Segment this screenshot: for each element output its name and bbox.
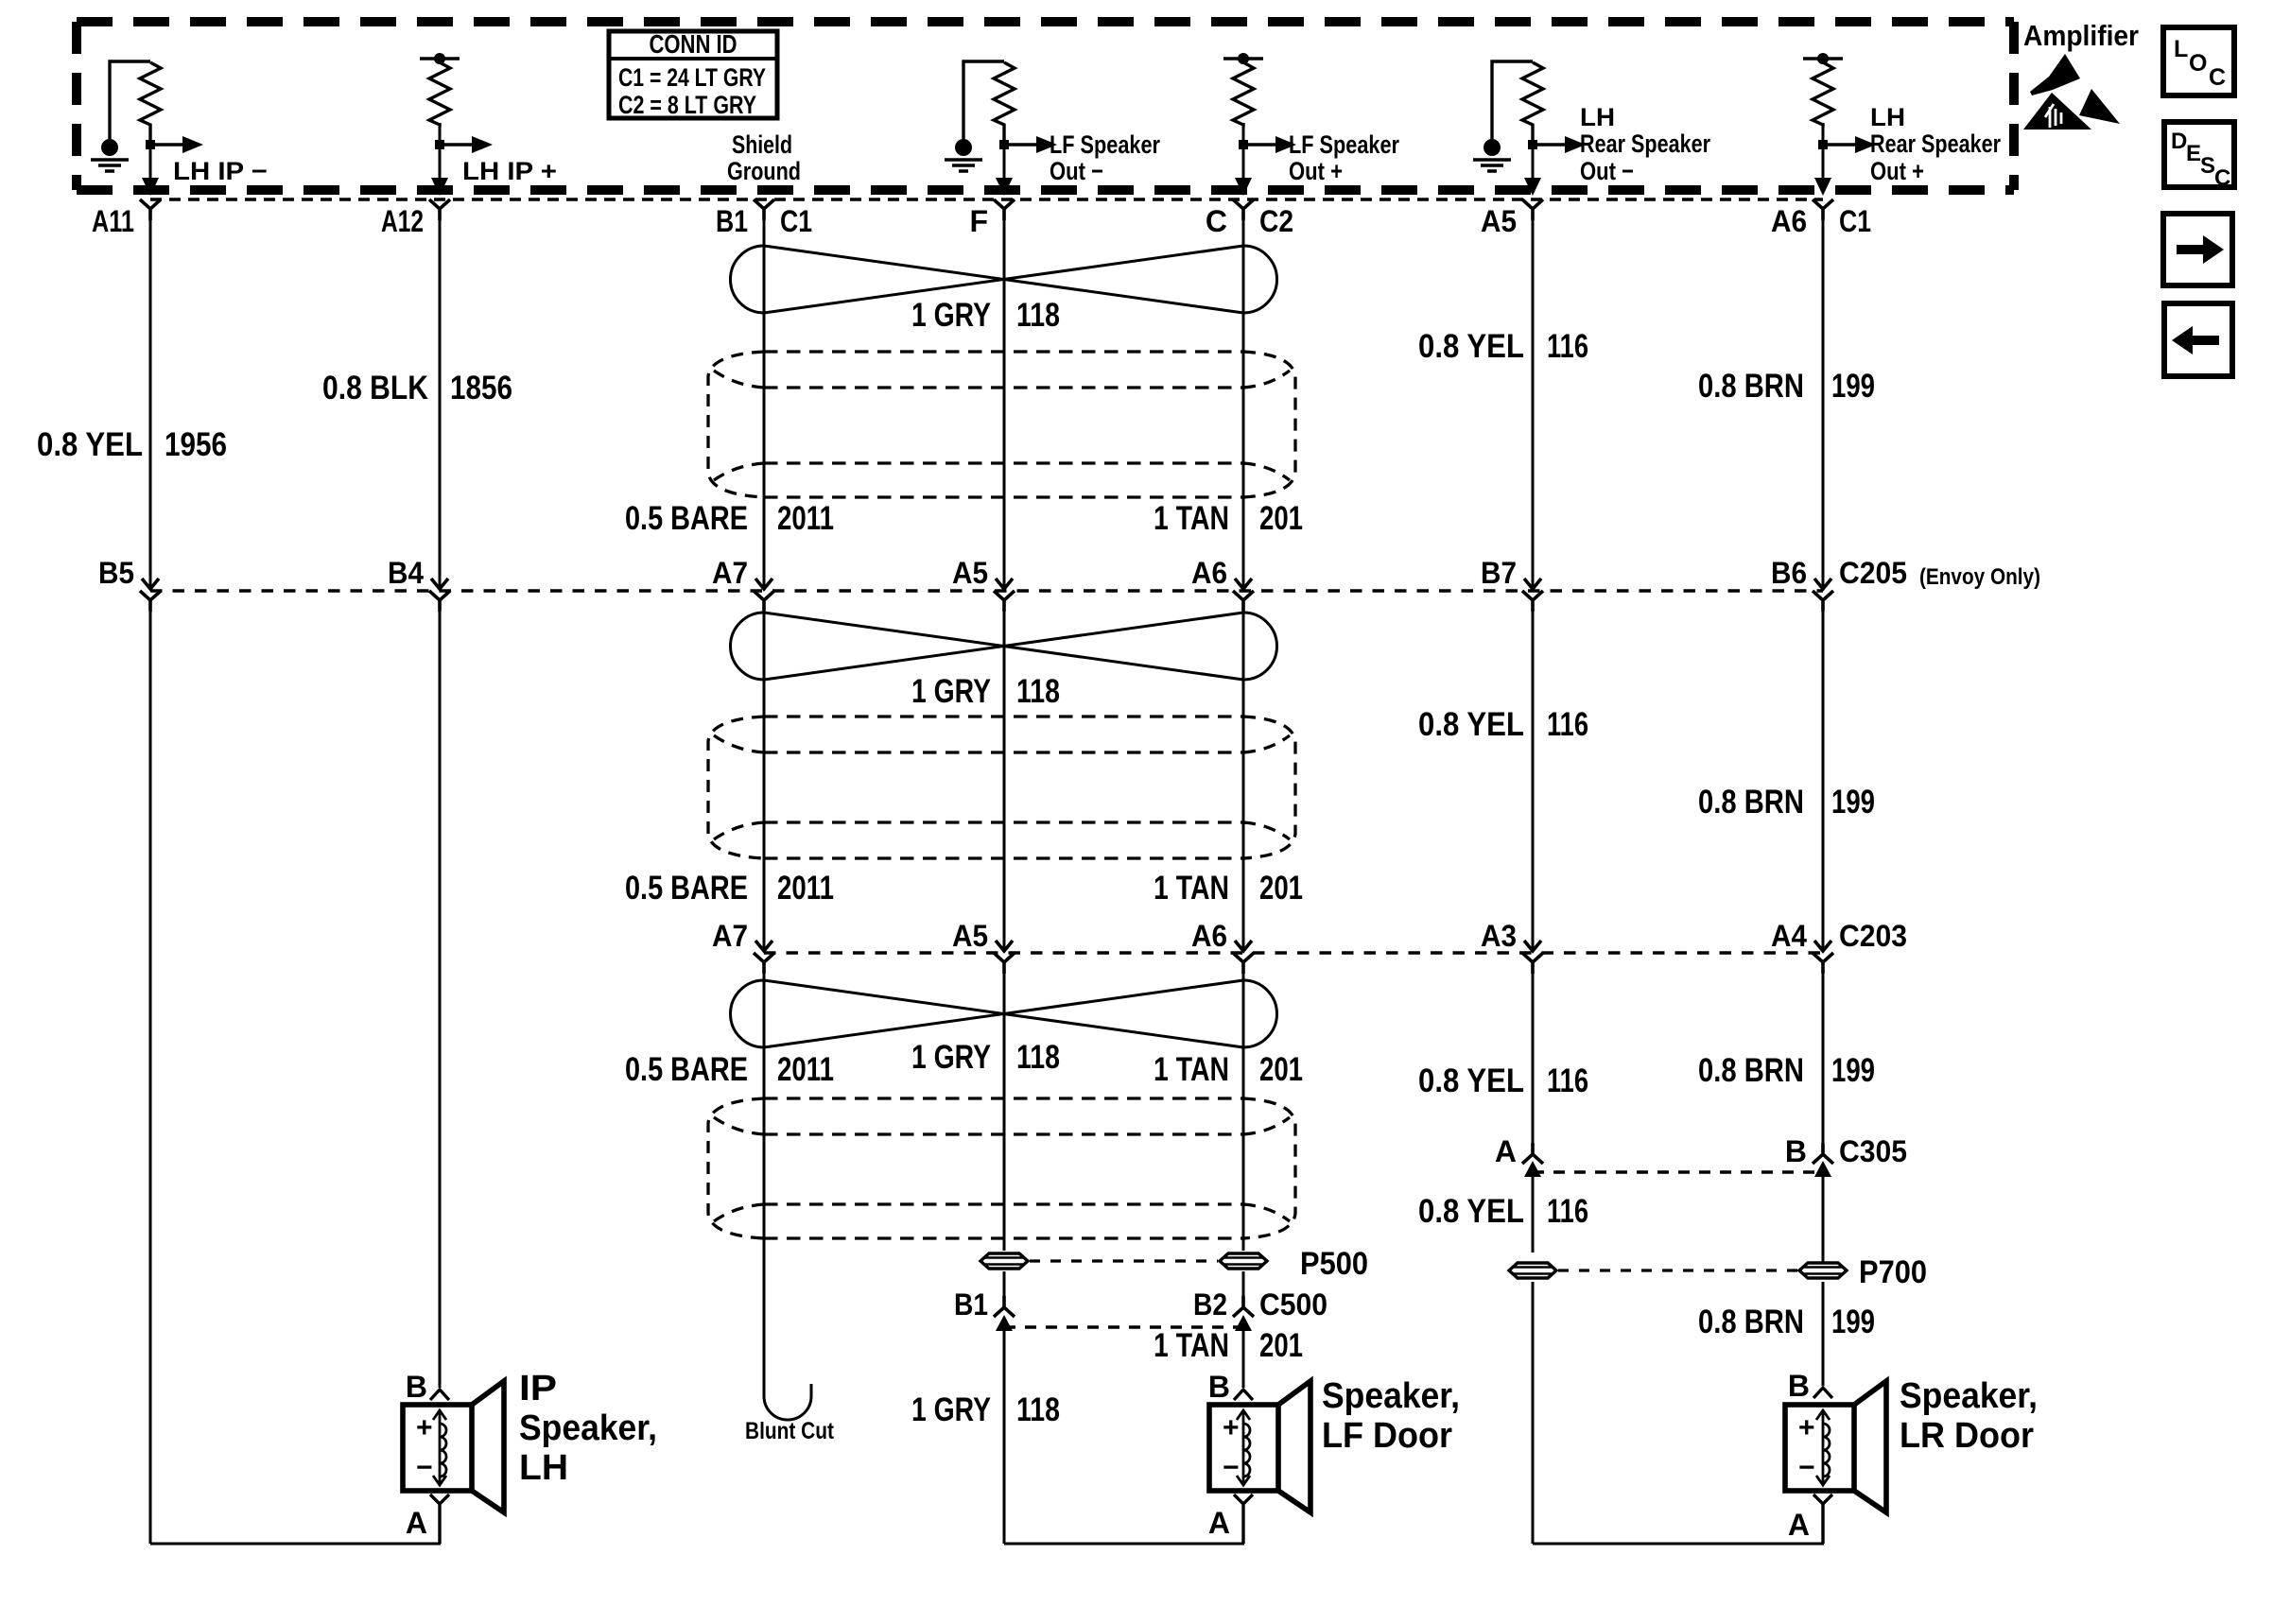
wire label 1 TAN 201 (3) <box>1154 1051 1303 1088</box>
ESD sensitive device symbol <box>2023 54 2120 130</box>
svg-text:A5: A5 <box>1481 204 1517 238</box>
svg-text:A: A <box>1208 1506 1230 1540</box>
grommet P700 pass-through (wire 199) <box>1799 1263 1847 1278</box>
connector label C500 <box>1259 1287 1327 1322</box>
return wire LR speaker (116) <box>1533 1543 1824 1546</box>
svg-text:B1: B1 <box>954 1287 988 1322</box>
svg-text:1856: 1856 <box>450 370 512 406</box>
svg-text:LH IP −: LH IP − <box>173 157 268 185</box>
pin label A7 row3 <box>712 919 748 953</box>
svg-text:B: B <box>1785 1134 1807 1168</box>
wire label 0.8 YEL 1956 (1) <box>37 426 227 463</box>
svg-text:0.8 YEL: 0.8 YEL <box>1418 1063 1524 1099</box>
svg-text:0.5 BARE: 0.5 BARE <box>625 870 748 907</box>
junction arrow LH Rear Speaker Out + <box>1818 136 1876 153</box>
wire label 0.8 YEL 116 (4) <box>1418 1193 1588 1230</box>
svg-text:A7: A7 <box>712 919 748 953</box>
resistor R2 (LH IP +) with supply bar <box>420 53 460 145</box>
svg-text:A12: A12 <box>381 204 424 238</box>
svg-text:0.8 YEL: 0.8 YEL <box>37 426 143 463</box>
speaker IP LH symbol <box>403 1381 504 1512</box>
wire 116 section 3 <box>1532 962 1535 1152</box>
svg-text:L: L <box>2174 36 2188 62</box>
wire label 1 GRY 118 (2) <box>911 673 1060 710</box>
C205 crossing arrow+fork pin B5 <box>140 579 161 612</box>
wire 201 section 5 <box>1242 1327 1245 1388</box>
label Speaker LF Door <box>1322 1376 1460 1456</box>
C305 crossing pin A <box>1522 1143 1543 1177</box>
wire label 0.5 BARE 2011 (3) <box>625 1051 834 1088</box>
wire 116 section 4 <box>1532 1170 1535 1253</box>
connector label C205 <box>1839 556 2040 590</box>
svg-text:Out +: Out + <box>1289 157 1343 185</box>
label P500 <box>1300 1246 1368 1282</box>
svg-text:C: C <box>1206 204 1227 238</box>
svg-text:C500: C500 <box>1259 1287 1327 1322</box>
svg-text:A4: A4 <box>1771 919 1807 953</box>
wire 1856 section 2 <box>439 600 442 1388</box>
svg-text:B: B <box>1208 1370 1230 1404</box>
svg-text:A: A <box>1788 1508 1810 1542</box>
svg-text:C1: C1 <box>1839 204 1871 238</box>
wire label 0.8 BRN 199 (3) <box>1698 1052 1875 1089</box>
label LH IP - <box>173 157 268 185</box>
C203 crossing arrow+fork pin A3 <box>1522 941 1543 974</box>
svg-text:116: 116 <box>1547 1193 1588 1230</box>
C203 crossing arrow+fork pin A7 <box>754 941 774 974</box>
pin label B1 <box>716 204 748 238</box>
junction arrow LH IP - <box>146 136 203 153</box>
pin label A5 <box>1481 204 1517 238</box>
svg-text:+: + <box>1223 1412 1240 1443</box>
svg-text:A6: A6 <box>1191 919 1227 953</box>
svg-text:B2: B2 <box>1193 1287 1227 1322</box>
svg-text:LF Speaker: LF Speaker <box>1050 130 1160 159</box>
svg-text:LF Speaker: LF Speaker <box>1289 130 1399 159</box>
svg-text:−: − <box>1223 1452 1240 1483</box>
speaker LR Door symbol <box>1785 1381 1886 1512</box>
svg-text:B6: B6 <box>1771 556 1807 590</box>
label Speaker LR Door <box>1900 1376 2038 1456</box>
connector label C203 <box>1839 919 1907 953</box>
connector row C205 dashed line <box>150 589 1823 593</box>
wire label 0.8 BRN 199 (2) <box>1698 784 1875 821</box>
svg-text:118: 118 <box>1016 1391 1060 1428</box>
svg-text:LH IP +: LH IP + <box>462 157 557 185</box>
svg-text:0.8 BRN: 0.8 BRN <box>1698 368 1804 405</box>
svg-text:D: D <box>2171 129 2187 154</box>
svg-text:S: S <box>2200 153 2215 179</box>
wire 116 section 5 <box>1532 1282 1535 1544</box>
connector C500 dashed line <box>1004 1325 1243 1328</box>
C205 crossing arrow+fork pin B4 <box>429 579 450 612</box>
pin label A6 row2 <box>1191 556 1227 590</box>
resistor R4 (LF Speaker Out +) with supply bar <box>1223 53 1263 145</box>
shield cylinder 3 <box>708 1098 1295 1238</box>
pin label A7 row2 <box>712 556 748 590</box>
svg-text:201: 201 <box>1259 1051 1303 1088</box>
grommet P500 pass-through (wire 118) <box>980 1253 1028 1269</box>
wire label 0.8 YEL 116 (1) <box>1418 328 1588 365</box>
svg-text:A: A <box>406 1506 427 1540</box>
grommet P700 dashed link <box>1558 1269 1797 1271</box>
wire 201 section 2 <box>1242 600 1245 951</box>
wire label 0.5 BARE 2011 (1) <box>625 500 834 537</box>
svg-text:B4: B4 <box>388 556 424 590</box>
connector fork pin A12 <box>429 199 450 220</box>
pin label F <box>969 204 988 238</box>
pin label A5 row2 <box>952 556 988 590</box>
svg-text:A6: A6 <box>1191 556 1227 590</box>
C205 crossing arrow+fork pin A7 <box>754 579 774 612</box>
wire label 0.8 YEL 116 (3) <box>1418 1063 1588 1099</box>
svg-text:1 TAN: 1 TAN <box>1154 1051 1229 1088</box>
svg-text:1 TAN: 1 TAN <box>1154 870 1229 907</box>
svg-text:2011: 2011 <box>777 1051 834 1088</box>
svg-text:C2: C2 <box>1259 204 1293 238</box>
junction arrow LF Speaker Out + <box>1239 136 1296 153</box>
C203 crossing arrow+fork pin A5 <box>994 941 1015 974</box>
svg-text:116: 116 <box>1547 328 1588 365</box>
svg-text:118: 118 <box>1016 297 1060 334</box>
junction arrow LF Speaker Out - <box>999 136 1057 153</box>
C205 crossing arrow+fork pin B6 <box>1813 579 1833 612</box>
wire label 1 TAN 201 (2) <box>1154 870 1303 907</box>
label IP Speaker LH <box>519 1369 657 1488</box>
C500 crossing pin B2 <box>1233 1296 1254 1331</box>
junction arrow LH IP + <box>435 136 493 153</box>
svg-text:C2 = 8 LT GRY: C2 = 8 LT GRY <box>618 91 756 119</box>
wire 199 above LR speaker <box>1822 1282 1825 1386</box>
LOC reference box <box>2163 27 2234 95</box>
svg-text:0.8 BRN: 0.8 BRN <box>1698 1052 1804 1089</box>
svg-text:(Envoy Only): (Envoy Only) <box>1919 564 2040 590</box>
blunt cut hook (wire 2011) <box>764 1371 811 1420</box>
svg-text:B1: B1 <box>716 204 748 238</box>
pin label A4 <box>1771 919 1807 953</box>
C205 crossing arrow+fork pin A6 <box>1233 579 1254 612</box>
CONN ID table <box>609 29 777 119</box>
svg-text:B: B <box>1788 1369 1810 1403</box>
speaker terminal A (LF Door) <box>1208 1494 1253 1544</box>
svg-text:Blunt Cut: Blunt Cut <box>745 1418 835 1444</box>
connector label C1 (rear) <box>1839 204 1871 238</box>
svg-text:118: 118 <box>1016 673 1060 710</box>
ground symbol G3 (LH Rear Speaker - driver) <box>1473 61 1533 171</box>
svg-text:LF Door: LF Door <box>1322 1416 1452 1456</box>
wire 201 above C500 <box>1242 1271 1245 1307</box>
wire 1956 (0.8 YEL) section 1 <box>149 210 152 589</box>
pin label B7 <box>1481 556 1517 590</box>
label LH Rear Speaker Out - <box>1580 103 1710 185</box>
wire 199 (0.8 BRN) section 1 <box>1822 210 1825 589</box>
wire 199 section 3 <box>1822 962 1825 1152</box>
return wire IP speaker (1956) <box>150 1543 441 1546</box>
wire 201 (1 TAN) section 1 <box>1242 210 1245 589</box>
back arrow box <box>2164 303 2232 376</box>
svg-text:199: 199 <box>1831 784 1875 821</box>
connector fork pin F <box>994 199 1015 220</box>
svg-text:0.8 BRN: 0.8 BRN <box>1698 1304 1804 1340</box>
svg-text:+: + <box>1798 1412 1815 1443</box>
pin label A11 <box>92 204 134 238</box>
svg-text:C: C <box>2209 64 2226 91</box>
svg-text:CONN ID: CONN ID <box>650 29 737 59</box>
connector row amplifier C1/C2 dashed line <box>150 198 1823 201</box>
svg-text:1 GRY: 1 GRY <box>911 673 991 710</box>
svg-text:1 TAN: 1 TAN <box>1154 1327 1229 1364</box>
svg-text:A: A <box>1495 1134 1517 1168</box>
connector fork pin B1 <box>754 199 774 220</box>
pin label B4 <box>388 556 424 590</box>
grommet P500 pass-through (wire 201) <box>1220 1253 1267 1269</box>
wire 118 above C500 <box>1003 1271 1006 1307</box>
speaker terminal B (LR Door) <box>1788 1369 1832 1403</box>
speaker terminal B (IP LH) <box>406 1370 449 1404</box>
svg-text:E: E <box>2186 141 2201 166</box>
svg-text:+: + <box>416 1412 433 1443</box>
svg-text:A6: A6 <box>1771 204 1807 238</box>
svg-text:199: 199 <box>1831 1304 1875 1340</box>
svg-text:0.8 YEL: 0.8 YEL <box>1418 328 1524 365</box>
wire 118 section 2 <box>1003 600 1006 951</box>
svg-text:P700: P700 <box>1859 1254 1927 1290</box>
pin label B1 (C500) <box>954 1287 988 1322</box>
resistor R1 (LH IP -) <box>140 62 161 142</box>
resistor R6 (LH Rear Speaker Out +) with supply bar <box>1803 53 1843 145</box>
svg-text:Out −: Out − <box>1050 157 1103 185</box>
C203 crossing arrow+fork pin A4 <box>1813 941 1833 974</box>
wire label 1 GRY 118 (4) <box>911 1391 1060 1428</box>
svg-text:C1 = 24 LT GRY: C1 = 24 LT GRY <box>618 63 766 92</box>
svg-text:C305: C305 <box>1839 1134 1907 1168</box>
svg-text:Out +: Out + <box>1870 157 1924 185</box>
svg-text:C203: C203 <box>1839 919 1907 953</box>
svg-text:199: 199 <box>1831 368 1875 405</box>
svg-text:Rear Speaker: Rear Speaker <box>1580 130 1710 158</box>
svg-text:A5: A5 <box>952 556 988 590</box>
svg-text:LH: LH <box>1580 103 1615 131</box>
twisted pair symbol 3 <box>731 980 1277 1047</box>
amp output arrow pin A5 <box>1524 145 1541 196</box>
svg-text:P500: P500 <box>1300 1246 1368 1282</box>
svg-text:C1: C1 <box>780 204 812 238</box>
svg-text:Speaker,: Speaker, <box>519 1408 657 1448</box>
C205 crossing arrow+fork pin B7 <box>1522 579 1543 612</box>
connector fork pin A11 <box>140 199 161 220</box>
svg-text:LR Door: LR Door <box>1900 1416 2034 1456</box>
svg-text:B: B <box>406 1370 427 1404</box>
pin label B (C305) <box>1785 1134 1807 1168</box>
connector fork pin A6 <box>1813 199 1833 220</box>
ground symbol G1 (LH IP - driver) <box>91 61 150 171</box>
wire 118 section 5 <box>1003 1327 1006 1544</box>
label P700 <box>1859 1254 1927 1290</box>
wire label 0.8 BRN 199 (1) <box>1698 368 1875 405</box>
connector fork pin C <box>1233 199 1254 220</box>
svg-text:F: F <box>969 204 988 238</box>
wire 118 (1 GRY) section 1 <box>1003 210 1006 589</box>
resistor R3 (LF Speaker Out -) <box>994 62 1015 142</box>
svg-text:118: 118 <box>1016 1039 1060 1076</box>
wire label 1 TAN 201 (1) <box>1154 500 1303 537</box>
svg-text:1 GRY: 1 GRY <box>911 1391 991 1428</box>
svg-text:0.5 BARE: 0.5 BARE <box>625 500 748 537</box>
connector label C2 (8 LT GRY) <box>1259 204 1293 238</box>
amp output arrow pin A11 <box>142 145 159 196</box>
svg-text:2011: 2011 <box>777 870 834 907</box>
connector label C1 (24 LT GRY) <box>780 204 812 238</box>
svg-text:116: 116 <box>1547 706 1588 743</box>
twisted pair symbol 1 (GRY/TAN) <box>730 246 1276 313</box>
svg-text:2011: 2011 <box>777 500 834 537</box>
resistor R5 (LH Rear Speaker Out -) <box>1522 62 1543 142</box>
grommet P700 pass-through (wire 116) <box>1509 1263 1556 1278</box>
C205 crossing arrow+fork pin A5 <box>994 579 1015 612</box>
label LH IP + <box>462 157 557 185</box>
twisted pair symbol 2 <box>731 613 1277 680</box>
svg-text:Speaker,: Speaker, <box>1322 1376 1460 1416</box>
wire label 0.5 BARE 2011 (2) <box>625 870 834 907</box>
label Blunt Cut <box>745 1418 835 1444</box>
svg-text:0.8 YEL: 0.8 YEL <box>1418 706 1524 743</box>
pin label B6 <box>1771 556 1807 590</box>
svg-text:201: 201 <box>1259 870 1303 907</box>
svg-text:A3: A3 <box>1481 919 1517 953</box>
label LF Speaker Out - <box>1050 130 1160 185</box>
svg-text:1 GRY: 1 GRY <box>911 297 991 334</box>
amp output arrow pin A6 <box>1814 145 1831 196</box>
wire 201 section 3 <box>1242 962 1245 1251</box>
wire 116 section 2 <box>1532 600 1535 951</box>
label LF Speaker Out + <box>1289 130 1399 185</box>
speaker terminal A (IP LH) <box>406 1494 449 1544</box>
wire 199 section 4 <box>1822 1170 1825 1262</box>
pin label B5 <box>98 556 134 590</box>
pin label A12 <box>381 204 424 238</box>
svg-text:0.8 BLK: 0.8 BLK <box>322 370 428 406</box>
amplifier label <box>2023 19 2139 52</box>
connector row C203 dashed line <box>764 951 1823 955</box>
wire 1956 section 2 <box>149 600 152 1544</box>
wire label 0.8 YEL 116 (2) <box>1418 706 1588 743</box>
svg-text:Rear Speaker: Rear Speaker <box>1870 130 2001 158</box>
svg-text:201: 201 <box>1259 1327 1303 1364</box>
connector C305 dashed line <box>1533 1170 1823 1173</box>
svg-text:A5: A5 <box>952 919 988 953</box>
pin label A6 <box>1771 204 1807 238</box>
svg-text:A7: A7 <box>712 556 748 590</box>
C500 crossing pin B1 <box>994 1296 1015 1331</box>
svg-text:0.8 YEL: 0.8 YEL <box>1418 1193 1524 1230</box>
label LH Rear Speaker Out + <box>1870 103 2001 185</box>
wire 1856 (0.8 BLK) section 1 <box>439 210 442 589</box>
svg-text:1956: 1956 <box>165 426 227 463</box>
svg-text:−: − <box>1798 1452 1815 1483</box>
svg-text:B5: B5 <box>98 556 134 590</box>
svg-text:A11: A11 <box>92 204 134 238</box>
svg-text:Speaker,: Speaker, <box>1900 1376 2038 1416</box>
svg-text:O: O <box>2189 50 2207 77</box>
wire label 1 GRY 118 (1) <box>911 297 1060 334</box>
svg-text:IP: IP <box>519 1369 557 1408</box>
C203 crossing arrow+fork pin A6 <box>1233 941 1254 974</box>
DESC reference box <box>2164 122 2234 191</box>
svg-text:Amplifier: Amplifier <box>2023 19 2139 52</box>
amp output arrow pin A12 <box>431 145 448 196</box>
wire 118 section 3 <box>1003 962 1006 1251</box>
speaker terminal B (LF Door) <box>1208 1370 1253 1404</box>
amplifier dashed box <box>77 22 2014 190</box>
speaker terminal A (LR Door) <box>1788 1494 1832 1544</box>
svg-text:199: 199 <box>1831 1052 1875 1089</box>
svg-text:0.5 BARE: 0.5 BARE <box>625 1051 748 1088</box>
svg-text:LH: LH <box>1870 103 1905 131</box>
label Shield Ground <box>727 130 801 185</box>
svg-text:C: C <box>2214 165 2230 191</box>
svg-text:B7: B7 <box>1481 556 1517 590</box>
junction arrow LH Rear Speaker Out - <box>1528 136 1586 153</box>
wire label 0.8 BRN 199 (4) <box>1698 1304 1875 1340</box>
svg-text:−: − <box>416 1452 433 1483</box>
wire 116 (0.8 YEL) section 1 <box>1532 210 1535 589</box>
ground symbol G2 (LF Speaker - driver) <box>945 61 1004 171</box>
svg-text:1 TAN: 1 TAN <box>1154 500 1229 537</box>
pin label A3 <box>1481 919 1517 953</box>
connector fork pin A5 <box>1522 199 1543 220</box>
pin label C <box>1206 204 1227 238</box>
amp output arrow pin C <box>1235 145 1252 196</box>
svg-text:201: 201 <box>1259 500 1303 537</box>
wire 2011 shield drain section 1 <box>763 210 766 589</box>
svg-text:0.8 BRN: 0.8 BRN <box>1698 784 1804 821</box>
wire label 1 TAN 201 (4) <box>1154 1327 1303 1364</box>
svg-text:1 GRY: 1 GRY <box>911 1039 991 1076</box>
shield cylinder 1 <box>708 352 1295 497</box>
connector label C305 <box>1839 1134 1907 1168</box>
svg-text:C205: C205 <box>1839 556 1907 590</box>
wire label 1 GRY 118 (3) <box>911 1039 1060 1076</box>
svg-text:116: 116 <box>1547 1063 1588 1099</box>
amp output arrow pin F <box>996 145 1013 196</box>
wire 199 section 2 <box>1822 600 1825 951</box>
wire 2011 section 3 <box>763 962 766 1371</box>
return wire LF speaker (118) <box>1004 1543 1244 1546</box>
pin label A (C305) <box>1495 1134 1517 1168</box>
forward arrow box <box>2163 214 2232 285</box>
pin label A5 row3 <box>952 919 988 953</box>
svg-text:Ground: Ground <box>727 157 801 185</box>
wire 2011 section 2 <box>763 600 766 951</box>
wire label 0.8 BLK 1856 (1) <box>322 370 512 406</box>
shield cylinder 2 <box>708 717 1295 858</box>
C305 crossing pin B <box>1813 1143 1833 1177</box>
pin label A6 row3 <box>1191 919 1227 953</box>
pin label B2 (C500) <box>1193 1287 1227 1322</box>
svg-text:LH: LH <box>519 1448 568 1488</box>
speaker LF Door symbol <box>1209 1381 1310 1512</box>
svg-text:Shield: Shield <box>732 130 792 159</box>
svg-text:Out −: Out − <box>1580 157 1634 185</box>
grommet P500 dashed link <box>1030 1259 1218 1262</box>
